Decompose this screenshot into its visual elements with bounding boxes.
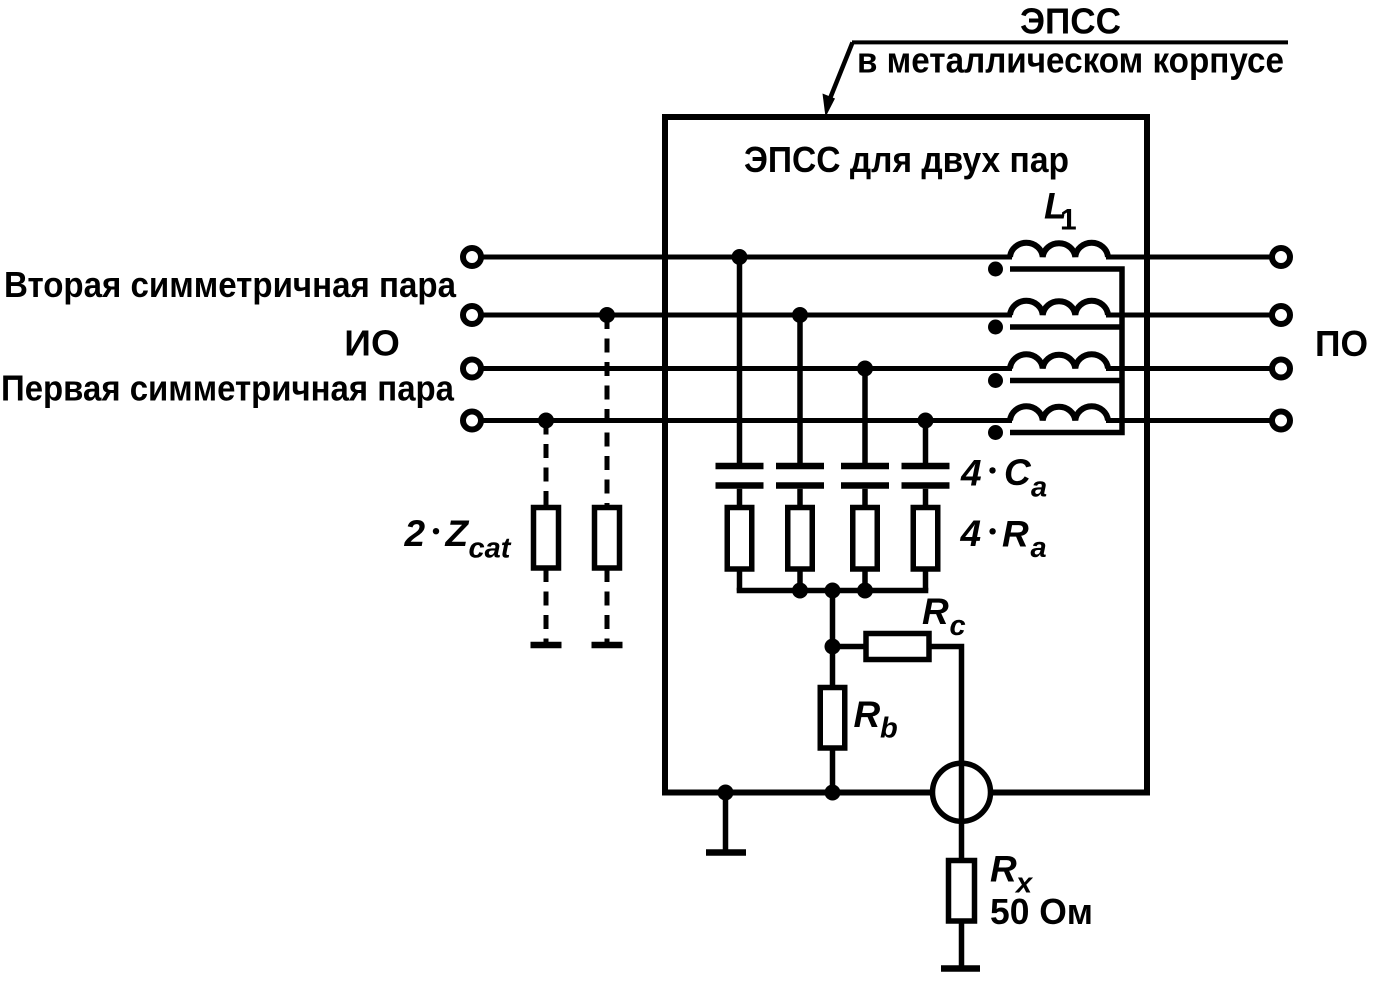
- wire 3: [472, 366, 1012, 371]
- svg-text:в металлическом корпусе: в металлическом корпусе: [857, 40, 1284, 81]
- polarity dot winding 3: [988, 373, 1003, 388]
- resistor to bus stub 4: [923, 569, 929, 591]
- resistor Zcat 2: [595, 508, 620, 569]
- resistor to bus stub 3: [862, 569, 868, 591]
- wire tap 1 down: [737, 257, 743, 463]
- terminal input 4: [463, 412, 481, 430]
- inductor winding 4: [1010, 406, 1108, 420]
- inductor winding 3: [1010, 354, 1108, 368]
- resistor to bus stub 2: [797, 569, 803, 591]
- svg-text:ИО: ИО: [344, 323, 400, 364]
- resistor Ra 3: [853, 508, 878, 570]
- svg-text:Первая симметричная пара: Первая симметричная пара: [1, 368, 455, 409]
- resistor Rb: [820, 688, 845, 749]
- svg-text:R: R: [1002, 513, 1029, 554]
- svg-text:2: 2: [404, 513, 426, 554]
- enclosure box ЭПСС: [665, 117, 1147, 793]
- terminal output 3: [1272, 360, 1290, 378]
- common bus under Ra: [737, 588, 929, 594]
- terminal output 4: [1272, 412, 1290, 430]
- center tap down: [830, 591, 836, 647]
- svg-text:4: 4: [960, 513, 982, 554]
- svg-text:ПО: ПО: [1315, 323, 1368, 364]
- node Rc/Rb junction: [825, 639, 841, 655]
- leader arrow to box: [823, 42, 853, 117]
- wire to Rb: [830, 647, 836, 688]
- node bus b: [857, 583, 873, 599]
- svg-text:C: C: [1004, 452, 1032, 493]
- svg-text:c: c: [950, 610, 966, 642]
- wire tap 2 down: [797, 315, 803, 463]
- wire tap 4 down: [923, 421, 929, 464]
- core line winding 2: [1010, 324, 1122, 330]
- wire to Rc: [833, 644, 867, 650]
- resistor Ra 2: [788, 508, 813, 570]
- svg-text:Z: Z: [445, 513, 470, 554]
- terminal output 2: [1272, 306, 1290, 324]
- resistor Zcat 1: [534, 508, 559, 569]
- capacitor Ca 4: [902, 466, 950, 486]
- dashed lead Zcat 1 lower: [544, 568, 549, 642]
- svg-text:b: b: [880, 713, 898, 745]
- capacitor Ca 3: [841, 466, 889, 486]
- wire 4: [472, 418, 1012, 423]
- svg-text:50 Ом: 50 Ом: [990, 891, 1093, 932]
- wire Rc to generator: [929, 647, 962, 764]
- svg-text:a: a: [1031, 532, 1047, 564]
- ground left bar: [706, 849, 746, 856]
- node Zcat tap 1: [538, 413, 554, 429]
- node bus a: [792, 583, 808, 599]
- callout label ЭПСС в металлическом корпусе: [852, 0, 1288, 80]
- svg-text:R: R: [854, 694, 881, 735]
- wire 1: [472, 255, 1012, 260]
- svg-text:ЭПСС для двух пар: ЭПСС для двух пар: [744, 139, 1069, 180]
- polarity dot winding 2: [988, 320, 1003, 335]
- dashed lead Zcat 2 lower: [605, 568, 610, 642]
- capacitor Ca 2: [776, 466, 824, 486]
- polarity dot winding 4: [988, 425, 1003, 440]
- cap to resistor stub 4: [923, 489, 929, 508]
- terminal input 3: [463, 360, 481, 378]
- core line winding 3: [1010, 378, 1122, 384]
- generator circle: [933, 763, 991, 821]
- node wire4 tap: [918, 413, 934, 429]
- dashed lead Zcat 1 upper: [544, 421, 549, 508]
- node wire1 tap: [732, 249, 748, 265]
- svg-text:R: R: [922, 591, 949, 632]
- wire through generator: [959, 763, 965, 861]
- node bus center: [825, 583, 841, 599]
- node wire2 tap: [792, 307, 808, 323]
- node Rb bottom: [825, 785, 841, 801]
- ground left stub: [723, 793, 729, 850]
- svg-text:ЭПСС: ЭПСС: [1020, 0, 1121, 41]
- cap to resistor stub 3: [862, 489, 868, 508]
- ground Zcat 2 bar: [592, 642, 623, 649]
- ground Zcat 1 bar: [531, 642, 562, 649]
- terminal input 1: [463, 248, 481, 266]
- dashed lead Zcat 2 upper: [605, 315, 610, 508]
- resistor Ra 1: [727, 508, 752, 570]
- svg-text:4: 4: [960, 453, 982, 494]
- inductor L1 winding 1: [1010, 243, 1108, 257]
- core line winding 1 with bus: [1010, 269, 1122, 433]
- polarity dot winding 1: [988, 262, 1003, 277]
- cap to resistor stub 1: [737, 489, 743, 508]
- resistor Ra 4: [913, 508, 938, 570]
- resistor Rx: [949, 861, 975, 922]
- terminal output 1: [1272, 248, 1290, 266]
- node ground stub: [718, 785, 734, 801]
- resistor to bus stub 1: [737, 569, 743, 591]
- wire tap 3 down: [862, 369, 868, 464]
- terminal input 2: [463, 306, 481, 324]
- svg-text:1: 1: [1060, 204, 1077, 237]
- cap to resistor stub 2: [797, 489, 803, 508]
- ground Rx bar: [941, 965, 980, 972]
- wire Rx to ground: [959, 921, 965, 966]
- capacitor Ca 1: [716, 466, 764, 486]
- wire Rb to bottom: [830, 748, 836, 793]
- resistor Rc: [866, 634, 929, 660]
- node Zcat tap 2: [599, 307, 615, 323]
- inductor winding 2: [1010, 301, 1108, 315]
- svg-text:a: a: [1031, 472, 1047, 504]
- node wire3 tap: [857, 361, 873, 377]
- svg-text:R: R: [990, 848, 1017, 889]
- svg-text:cat: cat: [469, 533, 512, 565]
- svg-text:Вторая симметричная пара: Вторая симметричная пара: [4, 264, 457, 305]
- wire 2: [472, 313, 1012, 318]
